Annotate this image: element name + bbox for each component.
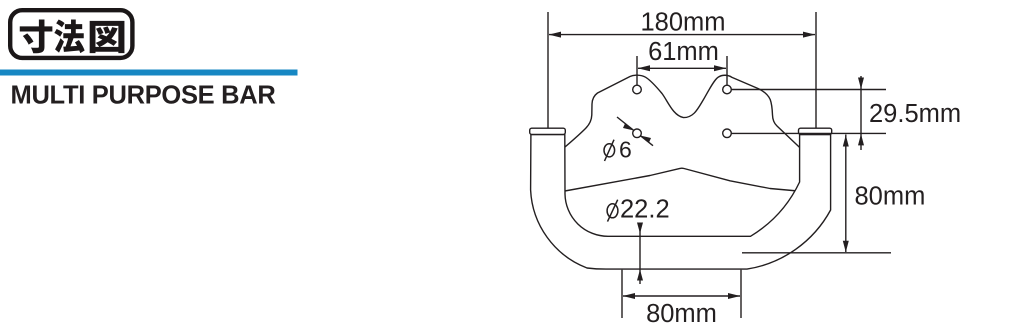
dia 22.2 leader line (639, 223, 641, 284)
arrowhead 180mm right (803, 32, 815, 38)
kanji 寸 (20, 19, 53, 53)
dim 180mm extension line right (815, 12, 817, 128)
bar tube body (531, 135, 831, 270)
bottom-right extension line (742, 252, 891, 254)
arrowhead 61mm left (638, 65, 650, 71)
arrowhead 80mm right bottom (points down) (843, 241, 849, 253)
arrowhead dia22.2 top (points down) (637, 223, 643, 234)
arrowhead 80mm bottom right (728, 293, 740, 299)
dim 80mm right dimension line (845, 135, 847, 253)
dim 80mm bottom extension line right (740, 270, 742, 318)
svg-text:80mm: 80mm (855, 183, 926, 211)
kanji 図 (90, 21, 125, 53)
svg-text:22.2: 22.2 (620, 196, 670, 224)
arrowhead 29.5mm top (points down) (858, 78, 864, 90)
svg-text:80mm: 80mm (646, 300, 717, 328)
dia 6 leader upper segment (617, 117, 634, 130)
dim 61mm extension line right (726, 56, 728, 85)
svg-text:MULTI PURPOSE BAR: MULTI PURPOSE BAR (11, 81, 276, 109)
arrowhead 80mm right top (points up) (843, 135, 849, 147)
dim 29.5mm dimension line (860, 76, 862, 150)
arrowhead 80mm bottom left (623, 293, 635, 299)
dim 180mm dimension line (549, 34, 815, 36)
dim 80mm bottom dimension line (623, 295, 740, 297)
svg-text:180mm: 180mm (640, 9, 725, 37)
blue divider bar (0, 70, 298, 76)
dim 61mm dimension line (638, 67, 726, 69)
svg-text:6: 6 (619, 137, 632, 163)
dim 80mm bottom extension line left (621, 270, 623, 318)
left tube end cap (530, 128, 566, 134)
kanji 法 (54, 19, 84, 53)
hole extension line lower right (732, 132, 887, 134)
dim 180mm extension line left (547, 12, 549, 128)
arrowhead dia22.2 bottom (points up) (637, 270, 643, 281)
arrowhead dia6 lower (points up-left) (640, 136, 651, 143)
hole top-left (633, 85, 642, 94)
dia 6 leader lower segment (640, 136, 653, 146)
hole mid-right (723, 129, 732, 138)
arrowhead 29.5mm bottom (points up) (858, 134, 864, 146)
mounting plate (557, 75, 806, 191)
arrowhead 61mm right (714, 65, 726, 71)
svg-text:61mm: 61mm (648, 38, 719, 66)
arrowhead 180mm left (549, 32, 561, 38)
dia symbol for 6 (604, 140, 615, 161)
arrowhead dia6 upper (points down-right) (623, 124, 634, 131)
hole top-right (723, 85, 732, 94)
dia symbol for 22.2 (607, 200, 618, 222)
dim 61mm extension line left (636, 56, 638, 85)
svg-text:29.5mm: 29.5mm (869, 100, 961, 128)
right tube end cap (799, 128, 832, 134)
hole mid-left (633, 129, 642, 138)
hole extension line upper right (732, 89, 887, 91)
title badge rounded box (10, 10, 132, 58)
